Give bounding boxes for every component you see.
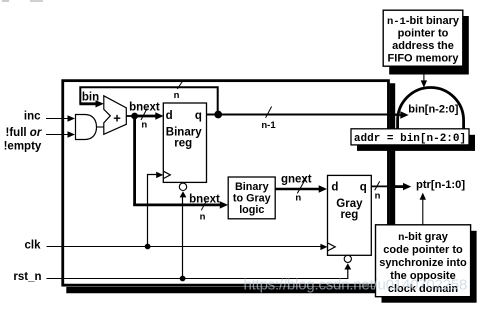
- svg-text:q: q: [195, 110, 202, 122]
- wire AND output to adder: [97, 126, 104, 128]
- svg-text:q: q: [360, 181, 367, 193]
- svg-text:reg: reg: [174, 137, 192, 149]
- svg-text:Binary: Binary: [235, 181, 269, 193]
- svg-text:+: +: [113, 111, 121, 126]
- arrowhead bnext into Binary-to-Gray: [220, 201, 228, 208]
- module outer box: [63, 81, 389, 286]
- svg-text:n: n: [141, 120, 147, 131]
- arrowhead clk into Binary reg: [156, 172, 163, 178]
- svg-text:to Gray: to Gray: [233, 193, 271, 205]
- block Binary to Gray logic: [228, 177, 275, 219]
- svg-text:FIFO memory: FIFO memory: [388, 53, 460, 65]
- svg-text:n: n: [174, 90, 180, 101]
- svg-text:n-bit gray: n-bit gray: [398, 231, 449, 244]
- wire bnext to d (thick): [135, 115, 158, 118]
- svg-text:!empty: !empty: [4, 140, 42, 152]
- svg-text:n: n: [200, 211, 206, 222]
- wire adder output: [126, 115, 134, 117]
- junction dot rst_n/Binary riser: [180, 276, 186, 282]
- svg-text:n-1-bit binary: n-1-bit binary: [387, 15, 460, 28]
- bus slash n on gnext: [297, 177, 306, 193]
- top-left crop speck 2: [30, 0, 43, 2]
- svg-text:synchronize into: synchronize into: [379, 257, 467, 269]
- wire rst riser to Binary reg: [182, 197, 184, 279]
- arrowhead inc into AND gate: [68, 115, 76, 121]
- wire clk: [47, 246, 322, 248]
- wire inc: [46, 118, 69, 120]
- bus slash n on lower bnext: [201, 201, 206, 211]
- clock triangle (Binary reg): [163, 171, 170, 178]
- arrowhead bnext into Binary reg d: [155, 112, 163, 119]
- svg-text:bin: bin: [82, 91, 99, 103]
- svg-text:rst_n: rst_n: [13, 271, 41, 283]
- wire Gray q output: [371, 185, 389, 187]
- AND gate: [76, 115, 97, 140]
- arrowhead gnext into Gray reg d: [319, 185, 327, 192]
- svg-text:bin[n-2:0]: bin[n-2:0]: [408, 103, 458, 115]
- svg-text:clk: clk: [25, 239, 42, 251]
- wire q into dome segment: [389, 114, 402, 116]
- wire Binary reg q output: [207, 114, 405, 116]
- register Gray reg: [328, 175, 372, 255]
- reset bubble (Gray reg): [344, 255, 351, 262]
- svg-text:n: n: [295, 193, 301, 204]
- callout bottom box: [376, 225, 471, 297]
- svg-text:addr = bin[n-2:0]: addr = bin[n-2:0]: [354, 133, 466, 145]
- wire bin feedback (q up, left, down to adder): [80, 87, 217, 114]
- svg-text:code pointer to: code pointer to: [383, 244, 463, 256]
- arrowhead rst into Gray reg bubble: [344, 263, 351, 269]
- bus slash n-1: [266, 107, 272, 118]
- svg-text:d: d: [331, 181, 338, 193]
- svg-text:logic: logic: [239, 204, 264, 216]
- junction dot clk/Binary riser: [145, 244, 151, 250]
- adder U1 (+): [104, 96, 127, 135]
- svg-text:ptr[n-1:0]: ptr[n-1:0]: [416, 179, 465, 191]
- arrowhead !full/!empty into AND gate: [68, 131, 76, 137]
- callout top shadow: [389, 16, 469, 75]
- arrowhead callout top down: [421, 80, 427, 87]
- junction dot bnext: [131, 113, 138, 120]
- wire gnext (thick): [275, 188, 320, 191]
- callout top box: [383, 10, 463, 66]
- svg-text:d: d: [166, 110, 173, 122]
- bus slash n on feedback: [177, 82, 182, 90]
- wire ptr output (thick): [395, 185, 405, 188]
- bus slash n on bnext: [141, 109, 147, 121]
- reset bubble (Binary reg): [179, 183, 186, 190]
- arrowhead bin into adder: [96, 100, 104, 107]
- wire rst_n riser (Gray reg): [347, 269, 349, 279]
- svg-text:n: n: [375, 191, 381, 202]
- svg-text:bnext: bnext: [129, 101, 160, 113]
- svg-text:inc: inc: [24, 111, 41, 123]
- svg-text:https://blog.csdn.net/u0140702: https://blog.csdn.net/u0140702258: [244, 277, 468, 294]
- svg-text:!full or: !full or: [6, 127, 42, 139]
- wire bin arrow into adder (thick): [79, 102, 97, 105]
- svg-text:reg: reg: [340, 209, 358, 221]
- addr box: [351, 129, 469, 145]
- addr box shadow: [357, 135, 475, 151]
- callout bottom shadow: [382, 231, 477, 303]
- top-left crop speck: [2, 0, 9, 2]
- bus slash n on Gray q: [375, 181, 380, 190]
- register Binary reg: [163, 103, 206, 182]
- arrowhead q into dome: [400, 111, 408, 118]
- callout top arrow: [423, 66, 425, 81]
- module outer box shadow: [66, 83, 395, 293]
- svg-text:pointer to: pointer to: [398, 28, 449, 40]
- wire clk branch to Binary reg: [148, 175, 158, 247]
- arrowhead clk into Gray reg: [320, 244, 327, 250]
- svg-text:n-1: n-1: [261, 120, 276, 131]
- arrowhead rst into Binary reg bubble: [180, 191, 187, 197]
- svg-text:address the: address the: [392, 40, 454, 52]
- svg-text:gnext: gnext: [281, 174, 312, 186]
- memory address dome bin[n-2:0]: [398, 88, 464, 130]
- wire rst_n: [47, 278, 349, 280]
- wire bnext lower run (thick): [133, 203, 220, 206]
- wire !full/!empty: [46, 134, 69, 136]
- clock triangle (Gray reg): [328, 243, 336, 251]
- arrowhead ptr: [403, 183, 411, 190]
- wire bnext feedback riser (thick): [133, 116, 136, 205]
- callout bottom arrow up: [422, 198, 424, 224]
- arrowhead callout bottom up: [420, 193, 426, 200]
- junction dot q/feedback: [214, 111, 222, 119]
